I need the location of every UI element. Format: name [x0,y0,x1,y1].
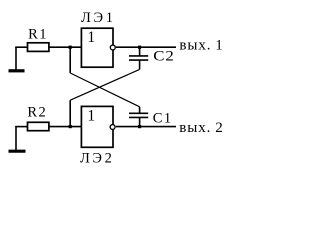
wire U2 output to вых.2 [116,126,176,128]
junction node D (U2 output / C1) [138,125,141,128]
svg-text:ЛЭ2: ЛЭ2 [80,151,114,167]
junction node A (R1 / U1 input / C1 coupling) [69,46,72,49]
inversion bubble U1 output [110,45,115,50]
capacitor C1 [129,113,148,117]
svg-text:1: 1 [87,29,96,46]
svg-text:вых. 2: вых. 2 [179,120,223,136]
inversion bubble U2 output [110,125,115,130]
junction node B (U1 output / C2) [138,46,141,49]
wire R1 right to U1 input [49,46,81,48]
svg-text:C1: C1 [153,110,173,126]
svg-text:R2: R2 [27,105,47,121]
wire GND1 to R1 left [15,46,27,48]
logic element U2 (ЛЭ2) body [81,106,113,147]
svg-text:R1: R1 [28,27,48,43]
resistor R2 [28,122,49,130]
ground GND1 (upper) [9,47,25,71]
svg-text:C2: C2 [153,48,174,64]
capacitor C2 [129,56,148,60]
wire diagonal node A to C1 top [70,73,139,107]
wire node B down to C2 [139,47,141,56]
label C2 [153,48,174,64]
wire C2 bottom down [139,60,141,69]
ground GND2 (lower) [9,127,26,152]
wire diagonal C2 to node C [70,69,139,100]
junction node C (R2 / U2 input / C2 coupling) [69,125,72,128]
logic element U1 (ЛЭ1) body [81,28,113,67]
wire U1 output to вых.1 [116,46,176,48]
svg-text:ЛЭ1: ЛЭ1 [81,10,116,26]
resistor R1 [28,43,49,52]
wire C1 top up [139,107,141,114]
svg-text:1: 1 [87,108,96,125]
wire GND2 to R2 left [15,126,27,128]
svg-text:вых. 1: вых. 1 [179,38,223,54]
wire node A down [69,47,71,73]
wire node D up to C1 [139,117,141,126]
wire R2 right to U2 input [49,126,81,128]
wire node C up [69,100,71,126]
